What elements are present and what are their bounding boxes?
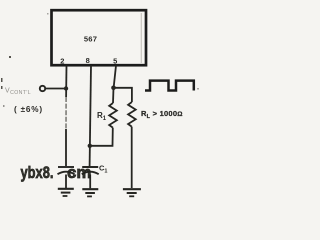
node input terminal <box>40 86 45 91</box>
svg-text:cm: cm <box>67 163 92 182</box>
svg-text:ybx8.: ybx8. <box>21 163 54 182</box>
wire pin8 down <box>90 66 91 167</box>
node junction pin5 <box>111 86 116 91</box>
wire left cap to ground <box>65 175 67 189</box>
wire pin5 junction to R1 top <box>112 88 115 103</box>
svg-text:567: 567 <box>84 35 97 44</box>
ground (middle) <box>82 189 98 196</box>
wire pin2 down faded <box>65 97 67 129</box>
wire terminal to pin2 <box>46 88 67 90</box>
wire C1 to ground <box>89 175 91 189</box>
scan speckles <box>1 13 199 107</box>
op-amp U1 ghost edge <box>140 13 142 63</box>
wire pin2 down lower <box>65 129 67 166</box>
svg-text:( ±6%): ( ±6%) <box>14 105 43 114</box>
resistor RL <box>128 102 136 127</box>
svg-text:8: 8 <box>86 56 90 65</box>
square wave output symbol <box>145 81 194 91</box>
capacitor C1 <box>82 167 99 174</box>
ground (left) <box>58 189 74 196</box>
node junction pin2 <box>64 86 68 90</box>
resistor R1 <box>109 103 117 128</box>
wire RL bottom to ground <box>131 127 133 188</box>
wire pin2 down <box>65 66 67 98</box>
op-amp U1 bottom edge <box>51 64 147 66</box>
node junction pin8 <box>88 144 92 148</box>
svg-text:2: 2 <box>60 57 64 66</box>
capacitor (left, pin2) <box>58 167 75 174</box>
svg-text:5: 5 <box>113 57 117 66</box>
wire pin5 to RL top <box>114 88 132 102</box>
op-amp U1 <box>52 10 147 65</box>
wire R1 bottom to junction <box>90 128 113 146</box>
ground (RL) <box>123 189 141 196</box>
wire pin5 down <box>114 66 116 89</box>
